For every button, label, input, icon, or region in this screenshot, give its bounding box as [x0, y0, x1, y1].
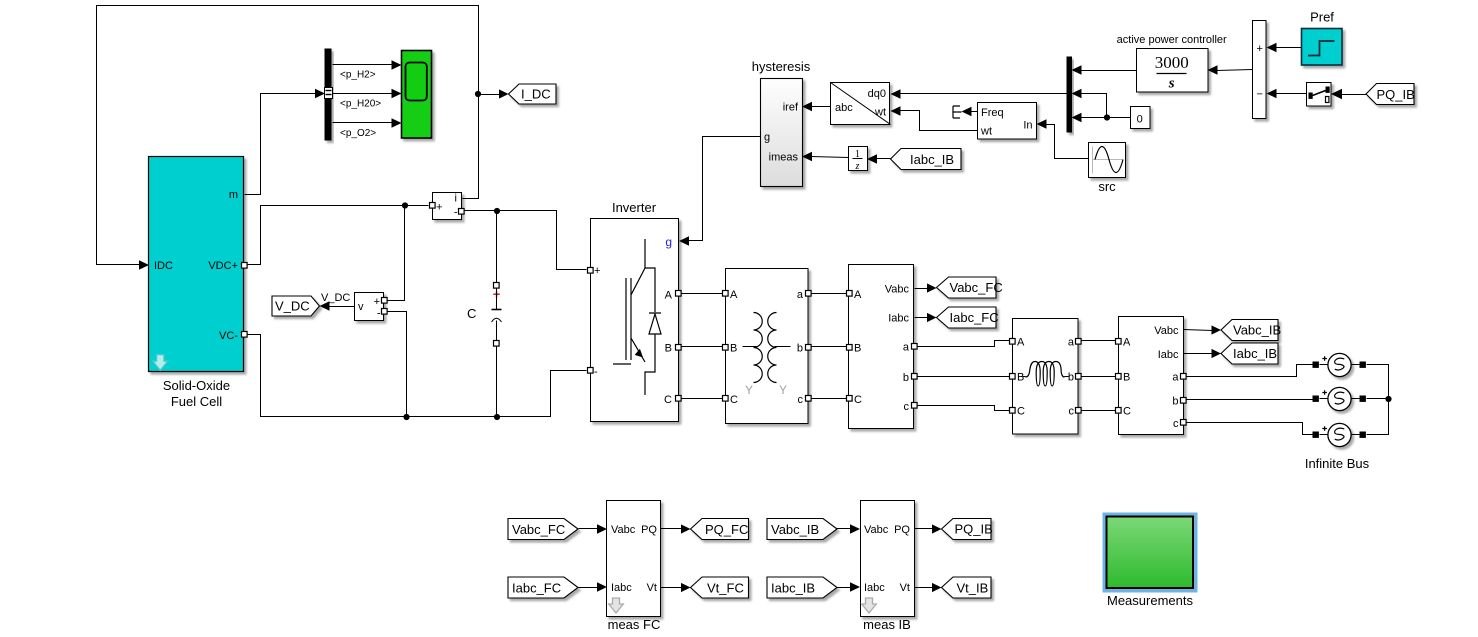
svg-text:+: +	[374, 296, 380, 308]
arrow into Iabc_FC tag	[927, 313, 937, 322]
mask arrow icon	[153, 355, 169, 371]
svg-text:B: B	[1123, 372, 1130, 384]
svg-text:V_DC: V_DC	[321, 292, 350, 304]
node: junction DC minus rail at voltmeter branch	[403, 414, 409, 420]
goto tag Iabc_IB	[1221, 343, 1278, 364]
node: junction DC minus rail at capacitor	[494, 414, 500, 420]
svg-text:0: 0	[1137, 114, 1143, 126]
node: junction at capacitor top branch	[494, 208, 500, 214]
svg-text:PQ: PQ	[641, 524, 657, 536]
svg-text:iref: iref	[783, 102, 799, 114]
svg-text:−: −	[1256, 89, 1262, 101]
block: constant 0	[1131, 107, 1151, 129]
from tag Vabc_FC	[508, 519, 578, 540]
svg-text:b: b	[1068, 372, 1074, 384]
terminator symbol	[953, 106, 962, 118]
arrow into Iabc_IB tag	[1212, 349, 1222, 358]
block: meas IB subsystem	[861, 501, 915, 633]
arrow into meas FC Iabc	[597, 582, 607, 592]
svg-text:Iabc_FC: Iabc_FC	[512, 581, 561, 596]
arrow into 3000/s	[1208, 65, 1218, 75]
svg-text:g: g	[665, 235, 672, 249]
wire: Iabc_FC tag to meas FC	[579, 587, 599, 589]
block: bus selector	[325, 49, 382, 141]
arrow into hysteresis iref	[802, 102, 812, 112]
wire: current feedback loop i-out to IDC input	[97, 6, 479, 265]
node: junction at constant 0 branch	[1104, 114, 1110, 120]
wire: src to PLL In	[1045, 125, 1089, 159]
svg-text:b: b	[797, 343, 803, 355]
wire: sum output to 3000/s input	[1217, 70, 1253, 71]
goto tag Iabc_FC	[937, 307, 999, 328]
svg-text:b: b	[903, 372, 909, 384]
svg-text:I_DC: I_DC	[521, 87, 551, 102]
svg-text:V_DC: V_DC	[275, 299, 310, 314]
svg-text:A: A	[1017, 337, 1025, 349]
svg-text:VC-: VC-	[219, 330, 238, 342]
block: Measurements scope (highlighted)	[1103, 513, 1198, 609]
wire: meas1 a to choke A	[917, 341, 1011, 347]
svg-text:b: b	[1172, 396, 1178, 408]
svg-text:Fuel Cell: Fuel Cell	[171, 394, 222, 409]
svg-text:z: z	[855, 161, 860, 172]
svg-text:meas FC: meas FC	[608, 617, 661, 632]
svg-text:Vabc_IB: Vabc_IB	[771, 522, 819, 537]
wire: Iabc_IB tag to meas IB	[837, 587, 852, 589]
wire: bus selector out2 to scope in2	[333, 93, 395, 95]
svg-text:Vabc_FC: Vabc_FC	[512, 522, 565, 537]
block: Inverter U2	[588, 200, 682, 422]
wire: meas2 a to source1	[1187, 365, 1313, 377]
arrow into Vabc_FC tag	[927, 283, 937, 292]
svg-text:Vabc_FC: Vabc_FC	[950, 280, 1003, 295]
svg-text:A: A	[665, 290, 673, 302]
wire: meas IB Vt to Vt_IB tag	[915, 587, 933, 589]
arrow into mux in1	[1072, 65, 1082, 75]
goto tag Vabc_IB	[1221, 320, 1281, 341]
svg-text:abc: abc	[835, 102, 853, 114]
wire: 3000/s output to mux in1	[1081, 70, 1137, 72]
arrow into PQ_IB tag	[932, 524, 942, 533]
svg-text:Vabc: Vabc	[1154, 325, 1179, 337]
svg-text:Vt: Vt	[647, 582, 657, 594]
svg-text:Pref: Pref	[1310, 10, 1334, 25]
wire: inverter A to transformer A	[681, 293, 723, 295]
arrow into inverter g port (points left)	[679, 236, 689, 246]
svg-text:-: -	[594, 366, 598, 378]
svg-text:Iabc_IB: Iabc_IB	[771, 581, 815, 596]
wire: inverter C to transformer C	[681, 398, 723, 400]
wire: hysteresis g to inverter gate	[689, 137, 761, 241]
wire: mux output to abc-dq0 input	[899, 93, 1067, 95]
svg-text:C: C	[1017, 406, 1025, 418]
port VC-	[242, 332, 248, 338]
block: current measurement i	[430, 193, 465, 220]
svg-text:wt: wt	[980, 126, 992, 138]
wire: Pref to sum plus	[1275, 47, 1302, 49]
svg-text:Iabc: Iabc	[611, 582, 632, 594]
from tag PQ_IB (flipped, top right)	[1366, 84, 1415, 105]
svg-text:C: C	[664, 394, 672, 406]
arrow into mux in2	[1072, 89, 1082, 99]
block: discrete PLL Freq wt	[978, 103, 1037, 140]
wire: capacitor top lead from rail	[496, 211, 498, 283]
goto tag PQ_FC	[691, 519, 749, 540]
svg-text:C: C	[467, 306, 476, 321]
IGBT with antiparallel diode icon	[613, 239, 655, 395]
svg-text:c: c	[1069, 406, 1075, 418]
svg-text:<p_O2>: <p_O2>	[340, 128, 376, 139]
wire: capacitor bottom lead to rail	[496, 347, 498, 417]
wire: constant 0 to mux in3	[1081, 117, 1131, 119]
wire: transformer a to measurement A	[811, 293, 847, 295]
component: capacitor C1	[467, 283, 502, 347]
goto tag I_DC	[509, 84, 557, 104]
wire: meas FC Vt to Vt_FC tag	[661, 587, 683, 589]
block: Solid-Oxide Fuel Cell U1	[149, 157, 248, 410]
wire: meas FC PQ to PQ_FC tag	[661, 528, 683, 530]
svg-text:Vt: Vt	[900, 582, 910, 594]
wire: meas1 b to choke B	[917, 376, 1011, 378]
wire: source3 to bus	[1367, 399, 1389, 435]
arrow into bus selector	[315, 89, 325, 99]
svg-text:<p_H2>: <p_H2>	[340, 70, 376, 81]
block: three-phase transformer T1	[723, 269, 812, 424]
secondary winding	[768, 313, 777, 383]
arrow into unit delay	[867, 154, 877, 164]
wire: choke a to meas2 A	[1081, 340, 1117, 342]
goto tag Vt_IB	[942, 577, 992, 598]
goto tag PQ_IB bottom	[942, 519, 993, 540]
wire: source1 to bus	[1367, 365, 1389, 399]
svg-text:Infinite Bus: Infinite Bus	[1305, 456, 1370, 471]
block: unit delay 1/z	[849, 147, 868, 173]
wire: Vabc_IB tag to meas IB	[837, 528, 852, 530]
wire: branch up to mux in2	[1081, 94, 1107, 118]
wire: PQ_IB tag to selector	[1341, 94, 1367, 96]
arrow into hysteresis imeas	[802, 152, 812, 162]
from tag Iabc_IB bottom	[767, 577, 837, 598]
block: three-phase series RLC choke L1	[1010, 319, 1082, 435]
component: AC source 1	[1313, 353, 1366, 376]
wire: meas1 Vabc to Vabc_FC tag	[915, 288, 929, 290]
wire: meas2 Vabc to Vabc_IB tag	[1184, 330, 1213, 331]
arrow into Vt_IB tag	[932, 583, 942, 592]
block: meas FC subsystem	[607, 501, 661, 633]
block: Pref step source	[1302, 10, 1343, 66]
svg-text:Vt_IB: Vt_IB	[957, 581, 989, 596]
svg-text:A: A	[854, 289, 862, 301]
component: AC source 2	[1313, 387, 1366, 410]
svg-text:A: A	[730, 289, 738, 301]
arrow scope in3	[392, 118, 402, 128]
svg-text:Iabc_FC: Iabc_FC	[950, 310, 999, 325]
svg-text:imeas: imeas	[769, 152, 799, 164]
svg-text:PQ_FC: PQ_FC	[705, 522, 748, 537]
wire: meas1 c to choke C	[917, 406, 1011, 411]
inductor coil icon	[1026, 362, 1065, 387]
block: sample and hold selector	[1307, 83, 1332, 107]
arrow into selector	[1331, 89, 1342, 99]
block: scope	[402, 51, 432, 139]
port VDC+	[242, 263, 248, 269]
wire: ammeter minus to capacitor top and inverter plus	[465, 211, 587, 270]
wire: Iabc_IB from-tag to unit delay	[876, 158, 891, 160]
goto tag V_DC (flipped)	[272, 296, 320, 316]
wire: meas2 b to source2	[1187, 399, 1314, 401]
arrow into dq0 wt input	[891, 106, 901, 116]
arrow into meas FC Vabc	[597, 524, 607, 534]
block: sum	[1253, 21, 1267, 119]
svg-text:B: B	[854, 343, 861, 355]
svg-text:v: v	[358, 301, 364, 313]
wire: source2 to bus	[1367, 398, 1389, 400]
svg-text:Vabc: Vabc	[864, 524, 889, 536]
svg-text:meas IB: meas IB	[863, 617, 911, 632]
wire: PLL wt to abc-dq0 wt	[899, 111, 978, 131]
svg-text:PQ_IB: PQ_IB	[1377, 87, 1415, 102]
arrow scope in1	[392, 60, 402, 70]
svg-text:+: +	[594, 265, 600, 277]
svg-text:IDC: IDC	[154, 260, 173, 272]
svg-text:C: C	[1123, 406, 1131, 418]
arrow into I_DC tag	[499, 89, 509, 98]
svg-text:g: g	[764, 132, 770, 144]
svg-text:c: c	[798, 394, 804, 406]
svg-text:Solid-Oxide: Solid-Oxide	[163, 378, 230, 393]
svg-text:C: C	[730, 394, 738, 406]
svg-text:Y: Y	[779, 383, 787, 397]
svg-text:+: +	[436, 202, 442, 214]
svg-text:a: a	[1068, 337, 1075, 349]
block: mux	[1067, 57, 1073, 133]
arrow into mux in3	[1072, 113, 1082, 123]
wire: meas2 c to source3	[1187, 423, 1313, 435]
svg-text:Vt_FC: Vt_FC	[707, 581, 744, 596]
arrow into PQ_FC tag	[681, 524, 691, 533]
arrow into meas IB Iabc	[850, 582, 860, 592]
block: integrator 3000/s	[1117, 34, 1227, 92]
svg-text:Iabc: Iabc	[864, 582, 885, 594]
svg-text:Vabc_IB: Vabc_IB	[1233, 323, 1281, 338]
svg-text:Iabc_IB: Iabc_IB	[1233, 346, 1277, 361]
block: abc to dq0 transform	[831, 83, 891, 125]
svg-text:Y: Y	[745, 383, 753, 397]
arrow into terminator	[962, 107, 972, 117]
svg-text:Freq: Freq	[981, 107, 1004, 119]
block: three-phase VI measurement FC	[847, 265, 918, 429]
svg-text:PQ: PQ	[894, 524, 910, 536]
svg-text:Inverter: Inverter	[612, 200, 657, 215]
block: src sine source	[1089, 143, 1126, 195]
wire: bus selector out1 to scope in1	[333, 64, 395, 66]
node: infinite bus junction	[1385, 396, 1391, 402]
svg-text:B: B	[730, 343, 737, 355]
primary winding	[754, 313, 763, 383]
node: branch to I_DC tag	[475, 91, 481, 97]
wire: meas IB PQ to PQ_IB tag	[915, 528, 933, 530]
goto tag Vabc_FC	[937, 277, 1003, 298]
from tag Iabc_FC	[508, 577, 578, 598]
wire: m output to bus selector	[245, 94, 317, 195]
from tag Vabc_IB	[767, 519, 837, 540]
arrow into sum minus	[1267, 89, 1277, 99]
arrow scope in2	[392, 89, 402, 99]
wire: Vabc_FC tag to meas FC	[579, 528, 599, 530]
wire: dq0 abc output to hysteresis iref	[811, 106, 831, 108]
svg-text:3000: 3000	[1155, 53, 1189, 72]
svg-text:VDC+: VDC+	[208, 260, 238, 272]
svg-text:i: i	[455, 193, 457, 205]
arrow into meas IB Vabc	[850, 524, 860, 534]
svg-text:<p_H20>: <p_H20>	[340, 99, 381, 110]
svg-text:Iabc: Iabc	[1158, 349, 1179, 361]
svg-text:C: C	[854, 394, 862, 406]
wire: branch to I_DC goto tag	[479, 94, 501, 96]
svg-text:a: a	[903, 342, 910, 354]
svg-text:m: m	[229, 189, 238, 201]
wire: PLL Freq to terminator	[969, 111, 978, 113]
port g arrowhead handled by wire; ports	[588, 268, 594, 274]
svg-text:wt: wt	[874, 107, 886, 119]
wire: choke c to meas2 C	[1081, 410, 1117, 412]
from tag Iabc_IB (flipped)	[891, 149, 962, 170]
component: AC source 3	[1313, 423, 1366, 446]
wire: selector to sum minus	[1275, 93, 1307, 95]
wire: unit delay to hysteresis imeas	[811, 157, 849, 158]
wire: bus selector out3 to scope in3	[333, 122, 395, 124]
wire: meas1 Iabc to Iabc_FC tag	[915, 317, 929, 319]
svg-text:a: a	[1172, 372, 1179, 384]
svg-text:hysteresis: hysteresis	[752, 59, 811, 74]
arrow into dq0 input (points left)	[891, 89, 901, 99]
svg-text:dq0: dq0	[868, 88, 886, 100]
svg-text:c: c	[1173, 418, 1179, 430]
svg-text:Iabc_IB: Iabc_IB	[910, 152, 954, 167]
block: three-phase VI measurement IB	[1116, 317, 1187, 435]
goto tag Vt_FC	[691, 577, 749, 598]
wire: inverter B to transformer B	[681, 346, 723, 348]
node: junction DC plus at ammeter input	[402, 202, 408, 208]
svg-text:A: A	[1123, 337, 1131, 349]
wire: voltmeter minus down to rail	[387, 312, 407, 417]
block: hysteresis controller	[752, 59, 811, 187]
svg-text:c: c	[904, 401, 910, 413]
wire: VC- to DC minus rail	[247, 335, 587, 417]
svg-text:-: -	[377, 308, 381, 320]
wire: choke b to meas2 B	[1081, 376, 1117, 378]
wire: branch down to voltmeter plus	[387, 206, 405, 301]
svg-text:PQ_IB: PQ_IB	[955, 522, 993, 537]
wire: voltmeter v output to V_DC tag	[329, 306, 355, 308]
wire: transformer b to measurement B	[811, 346, 847, 348]
arrow into V_DC tag (points left)	[320, 301, 330, 311]
svg-text:active power controller: active power controller	[1117, 34, 1227, 46]
arrow into PLL In	[1037, 119, 1047, 129]
svg-text:In: In	[1023, 120, 1032, 132]
svg-text:a: a	[797, 289, 804, 301]
svg-text:B: B	[665, 343, 672, 355]
wire: meas2 Iabc to Iabc_IB tag	[1184, 353, 1213, 355]
svg-text:+: +	[1256, 43, 1262, 55]
svg-text:Measurements: Measurements	[1107, 593, 1193, 608]
arrow into IDC port of fuel cell	[139, 260, 149, 270]
svg-text:-: -	[454, 207, 458, 219]
wire: transformer c to measurement C	[811, 398, 847, 400]
svg-text:src: src	[1098, 179, 1116, 194]
wire: VDC+ to DC plus rail	[247, 206, 429, 265]
svg-text:s: s	[1168, 76, 1175, 92]
svg-text:Vabc: Vabc	[885, 284, 910, 296]
block: voltage measurement v	[355, 293, 388, 321]
svg-text:Vabc: Vabc	[611, 524, 636, 536]
arrow into sum plus	[1267, 43, 1277, 53]
svg-text:B: B	[1017, 372, 1024, 384]
svg-text:Iabc: Iabc	[888, 313, 909, 325]
arrow into Vabc_IB tag	[1212, 325, 1222, 334]
arrow into Vt_FC tag	[681, 583, 691, 592]
